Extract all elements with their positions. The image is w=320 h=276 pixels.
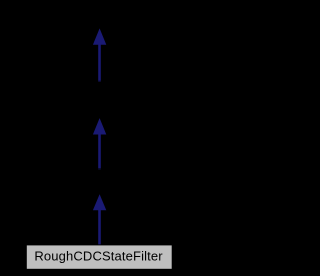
inheritance edge 1 (top): shaft [98, 44, 101, 81]
inheritance edge 1 (top): arrowhead [93, 28, 106, 44]
node RoughCDCStateFilter (current class box) [27, 245, 172, 268]
inheritance edge 2 (middle): arrowhead [93, 118, 106, 134]
inheritance edge 1 (top): shaft end fade [98, 81, 101, 82]
inheritance edge 2 (middle): shaft [98, 134, 101, 169]
inheritance edge 2 (middle): shaft end fade [98, 168, 101, 170]
svg-text:RoughCDCStateFilter: RoughCDCStateFilter [34, 249, 163, 264]
inheritance edge 3 (bottom): arrowhead [93, 194, 106, 210]
inheritance edge 3 (bottom): shaft [98, 209, 101, 244]
